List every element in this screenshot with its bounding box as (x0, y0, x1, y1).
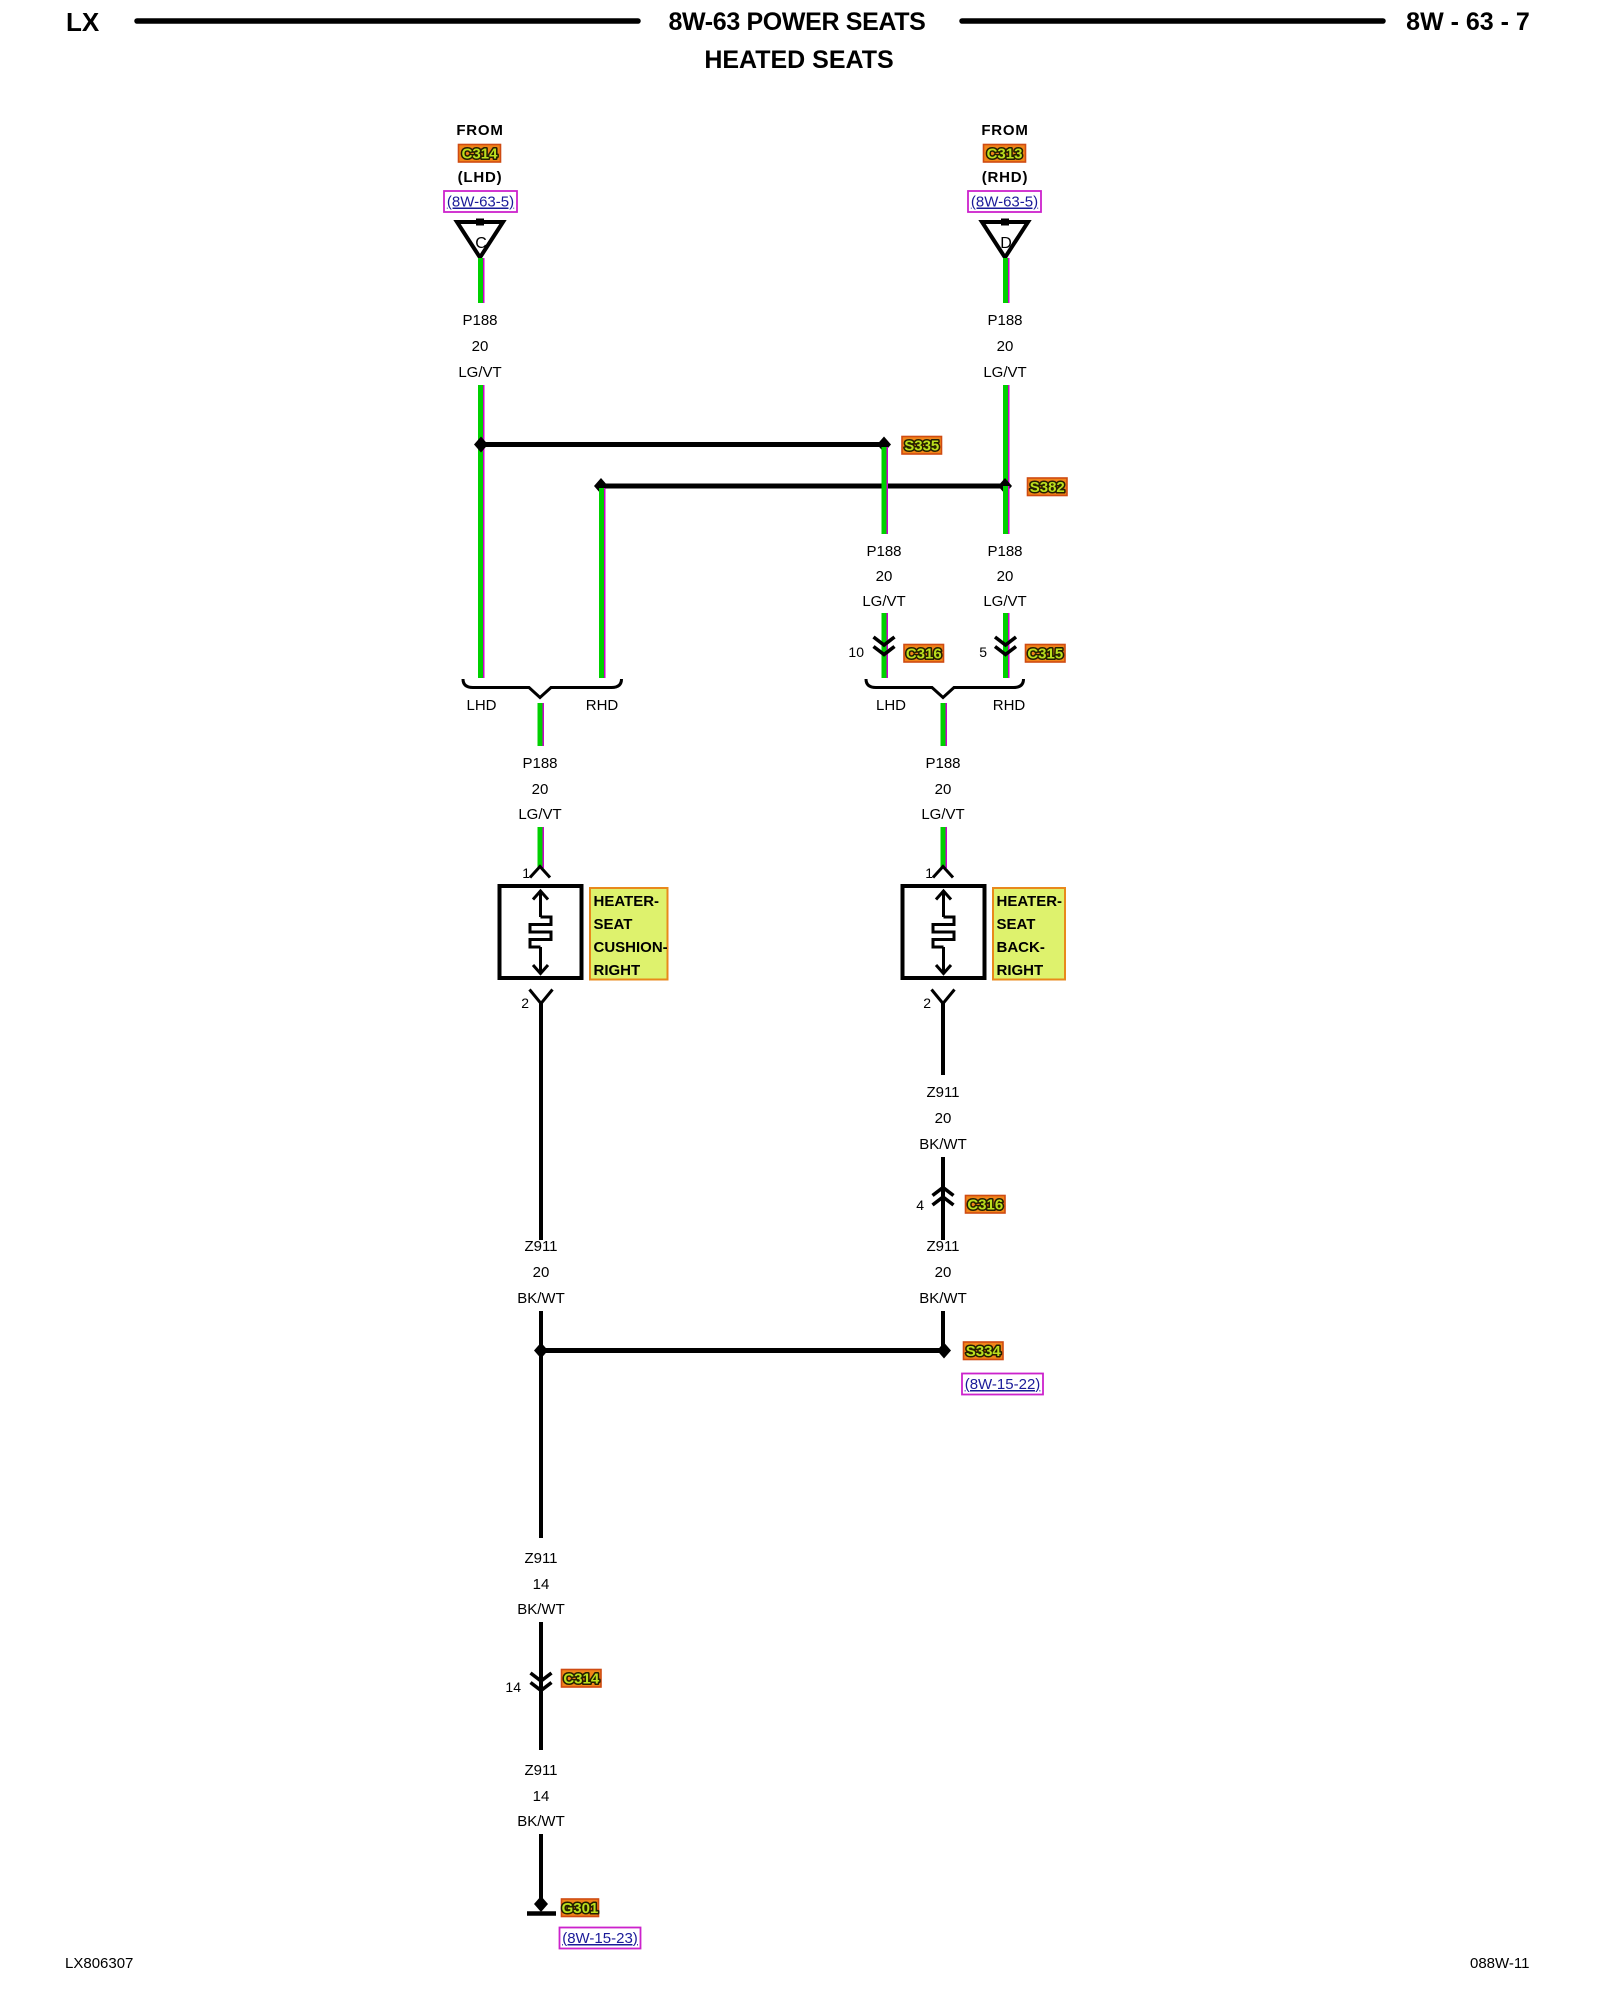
connector label C316 (904, 645, 944, 663)
svg-text:C314: C314 (563, 1670, 600, 1687)
wire label P188 20 LG/VT (back) (921, 755, 964, 823)
svg-text:C315: C315 (1027, 645, 1063, 662)
svg-text:BK/WT: BK/WT (517, 1601, 565, 1618)
svg-text:P188: P188 (462, 312, 497, 329)
component label HEATER-SEAT BACK-RIGHT (993, 888, 1065, 980)
svg-text:C316: C316 (906, 645, 942, 662)
junction S334 right (937, 1343, 951, 1359)
svg-text:FROM: FROM (456, 122, 503, 139)
svg-text:(8W-63-5): (8W-63-5) (447, 194, 514, 211)
wire Z911 seg to C314 (539, 1350, 543, 1538)
wire P188 seg (S382 to C315) (1006, 486, 1009, 534)
connector label C314 (inline) (562, 1670, 602, 1688)
svg-text:BK/WT: BK/WT (517, 1813, 565, 1830)
svg-text:SEAT: SEAT (997, 916, 1036, 933)
inline connector symbol C315 (pin 5) (995, 637, 1016, 655)
svg-text:20: 20 (935, 781, 952, 798)
svg-text:(8W-15-22): (8W-15-22) (965, 1376, 1041, 1393)
connector label C316 (lower) (966, 1196, 1006, 1214)
wire Z911 seg3 (back) (941, 1311, 945, 1352)
svg-text:14: 14 (505, 1679, 521, 1695)
component label HEATER-SEAT CUSHION-RIGHT (590, 888, 668, 980)
svg-text:(LHD): (LHD) (458, 169, 503, 186)
svg-text:1: 1 (522, 865, 530, 881)
wire label Z911 14 BK/WT (upper) (517, 1550, 565, 1618)
splice label S335 (902, 437, 942, 455)
svg-text:LHD: LHD (876, 697, 906, 714)
svg-text:BK/WT: BK/WT (919, 1136, 967, 1153)
wire P188 merged (cushion) (540, 703, 543, 746)
svg-text:20: 20 (997, 338, 1014, 355)
svg-text:P188: P188 (925, 755, 960, 772)
wire P188 seg above C316 (884, 613, 887, 678)
connector label C315 (1026, 645, 1066, 663)
svg-text:20: 20 (997, 568, 1014, 585)
svg-text:LX: LX (66, 7, 100, 37)
inline connector symbol C314 (pin 14) (531, 1673, 552, 1691)
pin symbol 2 (cushion) (530, 990, 553, 1004)
svg-text:FROM: FROM (981, 122, 1028, 139)
svg-text:BACK-: BACK- (997, 939, 1045, 956)
svg-text:BK/WT: BK/WT (517, 1290, 565, 1307)
svg-text:10: 10 (848, 644, 864, 660)
splice label S334 (964, 1342, 1004, 1360)
svg-text:CUSHION-: CUSHION- (594, 939, 668, 956)
svg-text:1: 1 (925, 865, 933, 881)
svg-text:P188: P188 (522, 755, 557, 772)
inline connector symbol C316 (pin 4) (933, 1188, 954, 1206)
svg-text:RIGHT: RIGHT (594, 962, 641, 979)
svg-text:C313: C313 (987, 145, 1023, 162)
svg-text:20: 20 (876, 568, 893, 585)
wire P188 seg above C315 (1006, 613, 1009, 678)
svg-text:HEATER-: HEATER- (594, 893, 660, 910)
svg-text:LG/VT: LG/VT (518, 806, 561, 823)
LHD/RHD merge brace left (463, 679, 622, 698)
svg-text:(8W-15-23): (8W-15-23) (562, 1930, 638, 1947)
connector label C313 (source) (984, 145, 1026, 163)
wire Z911 seg above C314 (539, 1622, 543, 1702)
wire P188 seg3 (C, LHD drop) (481, 444, 484, 678)
svg-text:C314: C314 (462, 145, 499, 162)
heater element - seat back right (903, 886, 985, 978)
svg-text:088W-11: 088W-11 (1470, 1955, 1529, 1972)
wire label Z911 20 BK/WT (cushion) (517, 1238, 565, 1307)
svg-text:P188: P188 (866, 543, 901, 560)
svg-text:C: C (475, 235, 487, 252)
wire label Z911 14 BK/WT (lower) (517, 1762, 565, 1830)
svg-text:BK/WT: BK/WT (919, 1290, 967, 1307)
svg-text:HEATER-: HEATER- (997, 893, 1063, 910)
ground junction dot (534, 1896, 548, 1912)
splice S334 bus wire (541, 1348, 944, 1353)
junction S335 (877, 437, 891, 453)
svg-text:RHD: RHD (586, 697, 619, 714)
junction S334 left (534, 1343, 548, 1359)
ground symbol G301 (527, 1911, 556, 1916)
svg-text:20: 20 (532, 781, 549, 798)
wire Z911 seg below C314 (539, 1695, 543, 1750)
splice label S382 (1028, 478, 1068, 496)
svg-text:SEAT: SEAT (594, 916, 633, 933)
svg-text:8W-63 POWER SEATS: 8W-63 POWER SEATS (668, 8, 925, 36)
page link (8W-15-23) (560, 1928, 641, 1949)
svg-text:LX806307: LX806307 (65, 1955, 133, 1972)
svg-text:4: 4 (916, 1197, 924, 1213)
wire P188 RHD drop (left group) (602, 488, 605, 678)
wire P188 to heater back (943, 827, 946, 868)
inline connector symbol C316 (pin 10) (874, 637, 895, 655)
wire Z911 seg to ground (539, 1834, 543, 1901)
wire Z911 seg2 (cushion) (539, 1311, 543, 1352)
svg-text:Z911: Z911 (524, 1762, 557, 1779)
svg-text:P188: P188 (987, 312, 1022, 329)
heater element - seat cushion right (500, 886, 582, 978)
svg-text:(RHD): (RHD) (982, 169, 1029, 186)
wire label P188 20 LG/VT (C top) (458, 312, 501, 381)
svg-text:5: 5 (979, 644, 987, 660)
svg-text:20: 20 (935, 1264, 952, 1281)
page link (8W-63-5) right (968, 191, 1041, 212)
junction S382 at D wire (998, 478, 1012, 494)
svg-text:Z911: Z911 (524, 1550, 557, 1567)
connector label C314 (source) (459, 145, 501, 163)
svg-text:LG/VT: LG/VT (921, 806, 964, 823)
ground label G301 (562, 1899, 599, 1917)
svg-text:P188: P188 (987, 543, 1022, 560)
svg-text:Z911: Z911 (926, 1238, 959, 1255)
page link (8W-63-5) left (444, 191, 517, 212)
wire label Z911 20 BK/WT (back upper) (919, 1084, 967, 1153)
svg-text:LG/VT: LG/VT (862, 593, 905, 610)
svg-text:D: D (1000, 235, 1012, 252)
wire label P188 20 LG/VT (cushion) (518, 755, 561, 823)
wire Z911 seg2 (back) (941, 1157, 945, 1240)
pin symbol 1 (cushion) (530, 867, 550, 878)
header rule right (962, 18, 1383, 24)
svg-text:(8W-63-5): (8W-63-5) (971, 194, 1038, 211)
junction S382 left end (594, 478, 608, 494)
wire label P188 20 LG/VT (C315 col) (983, 543, 1026, 610)
svg-text:S382: S382 (1030, 479, 1065, 496)
svg-text:LG/VT: LG/VT (983, 593, 1026, 610)
svg-text:LG/VT: LG/VT (983, 364, 1026, 381)
off-page connector D (982, 219, 1028, 258)
splice S382 bus wire (601, 484, 1005, 489)
splice S335 bus wire (481, 442, 884, 447)
svg-text:14: 14 (533, 1788, 550, 1805)
wire P188 seg1 (D) (1006, 258, 1009, 303)
svg-text:2: 2 (923, 995, 931, 1011)
wire Z911 seg1 (cushion) (539, 1004, 543, 1241)
wire P188 seg (S335 to C316) (884, 447, 887, 534)
svg-text:LG/VT: LG/VT (458, 364, 501, 381)
off-page connector C (457, 219, 503, 258)
wire P188 seg1 (C) (481, 258, 484, 303)
pin symbol 1 (back) (933, 867, 953, 878)
pin symbol 2 (back) (932, 990, 955, 1004)
page link (8W-15-22) (962, 1374, 1043, 1395)
wire label P188 20 LG/VT (C316 col) (862, 543, 905, 610)
svg-text:Z911: Z911 (524, 1238, 557, 1255)
wire P188 seg2 (D) (1006, 385, 1009, 488)
svg-text:S334: S334 (966, 1343, 1002, 1360)
svg-text:G301: G301 (562, 1900, 599, 1917)
svg-text:S335: S335 (904, 437, 939, 454)
wire P188 merged (back) (943, 703, 946, 746)
svg-text:RIGHT: RIGHT (997, 962, 1044, 979)
svg-text:14: 14 (533, 1576, 550, 1593)
svg-text:8W - 63 - 7: 8W - 63 - 7 (1406, 8, 1530, 36)
svg-text:Z911: Z911 (926, 1084, 959, 1101)
svg-text:C316: C316 (967, 1196, 1003, 1213)
wire P188 seg2 (C) (481, 385, 484, 446)
junction at C wire / S335 (474, 437, 488, 453)
svg-text:20: 20 (533, 1264, 550, 1281)
svg-text:2: 2 (521, 995, 529, 1011)
wire Z911 seg1 (back) (941, 1004, 945, 1076)
header rule left (137, 18, 638, 24)
svg-text:HEATED SEATS: HEATED SEATS (704, 46, 893, 74)
wire label P188 20 LG/VT (D top) (983, 312, 1026, 381)
wire P188 to heater cushion (540, 827, 543, 868)
svg-text:LHD: LHD (466, 697, 496, 714)
svg-text:20: 20 (472, 338, 489, 355)
svg-text:20: 20 (935, 1110, 952, 1127)
LHD/RHD merge brace right (866, 679, 1024, 698)
wire label Z911 20 BK/WT (back lower) (919, 1238, 967, 1307)
svg-text:RHD: RHD (993, 697, 1026, 714)
